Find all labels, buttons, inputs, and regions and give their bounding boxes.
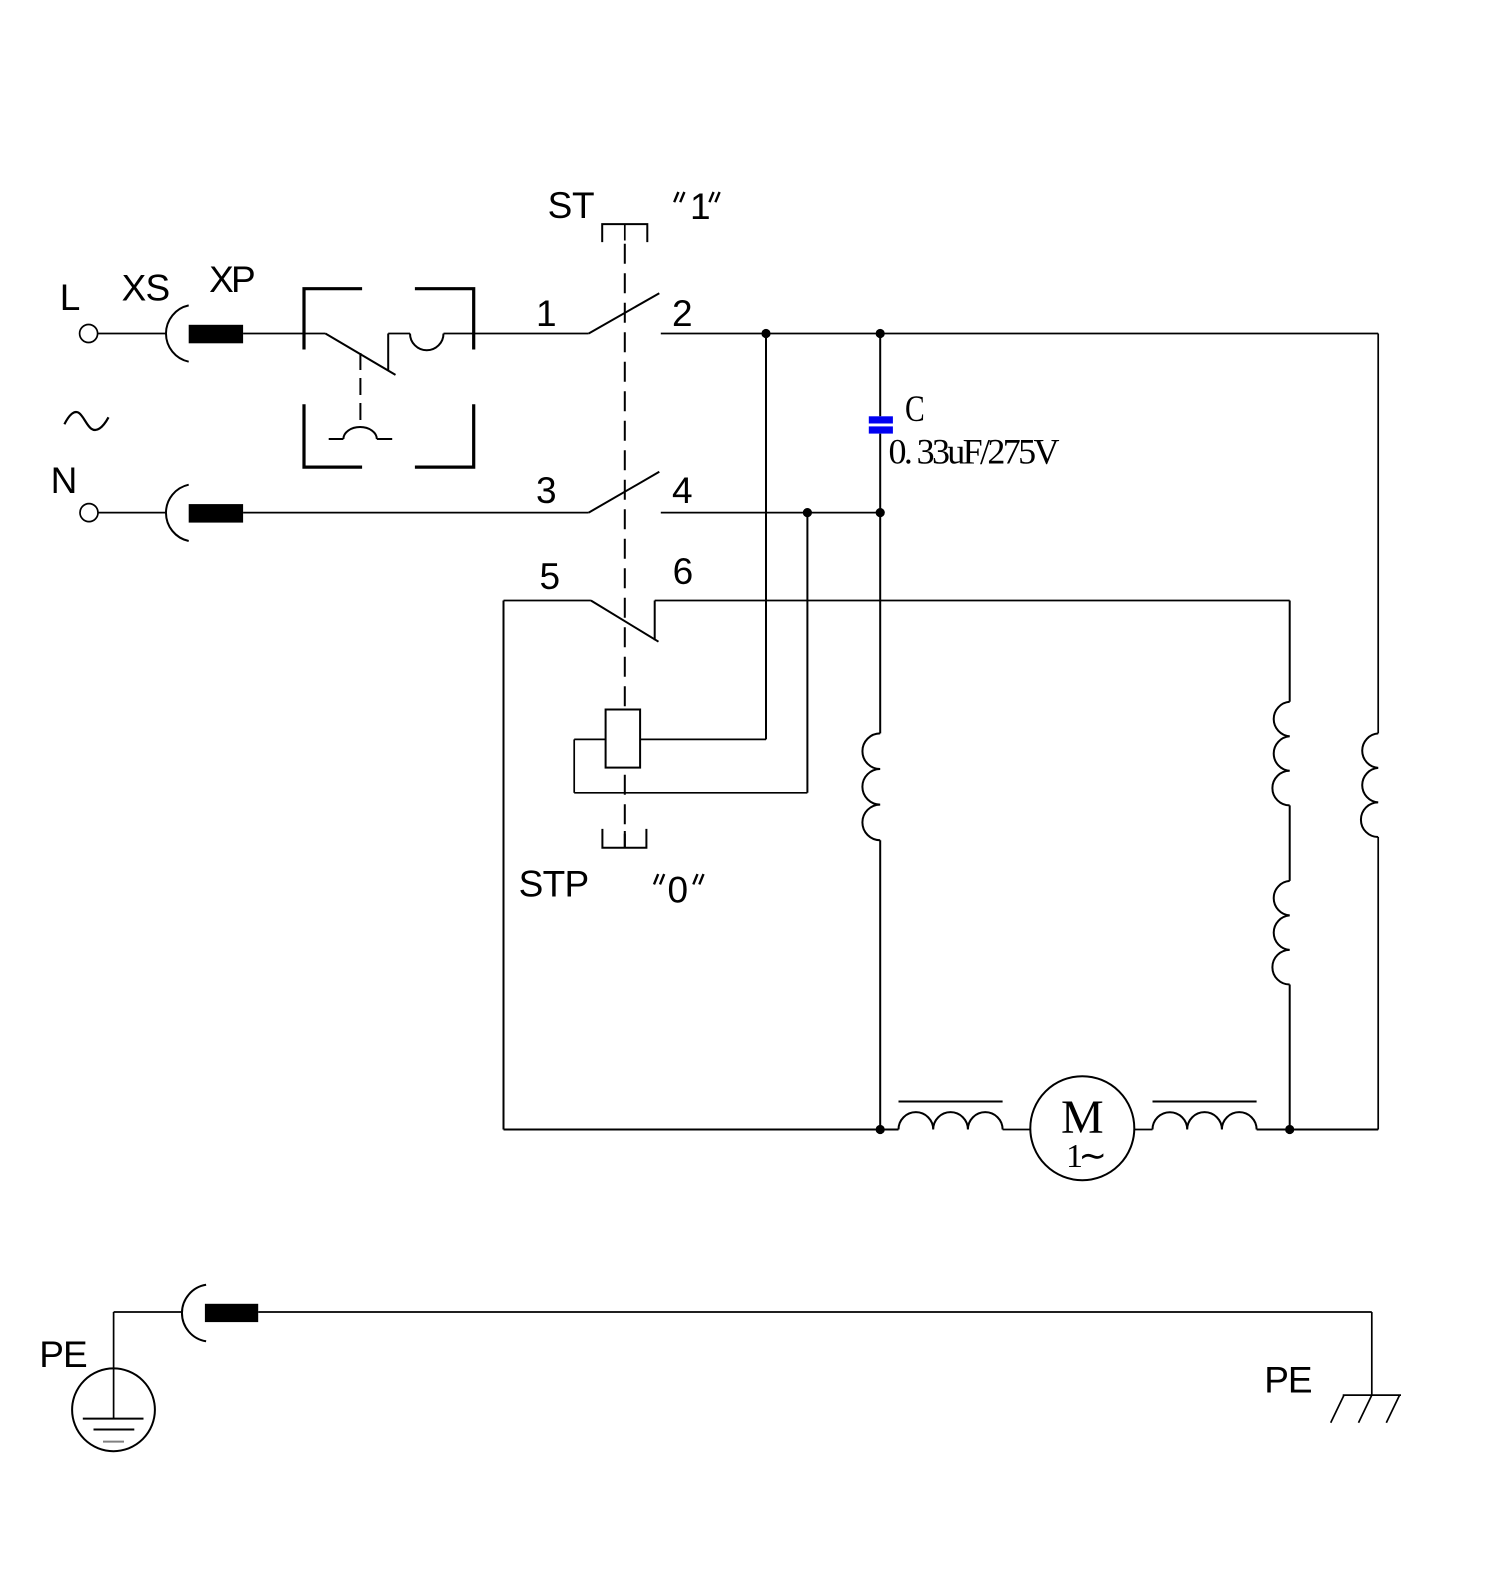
svg-text:5: 5	[540, 556, 561, 597]
svg-text:L: L	[60, 277, 81, 318]
svg-text:6: 6	[673, 551, 694, 592]
svg-text:4: 4	[672, 470, 693, 511]
svg-text:1: 1	[690, 186, 711, 227]
svg-text:XS: XS	[122, 268, 171, 309]
svg-text:N: N	[51, 460, 78, 501]
svg-text:XP: XP	[209, 259, 256, 300]
svg-text:PE: PE	[39, 1334, 87, 1375]
svg-text:1: 1	[536, 293, 557, 334]
svg-text:M: M	[1061, 1091, 1104, 1144]
svg-text:ST: ST	[548, 185, 595, 226]
svg-text:2: 2	[672, 293, 693, 334]
svg-text:0. 33uF/275V: 0. 33uF/275V	[889, 432, 1060, 472]
svg-text:PE: PE	[1264, 1360, 1312, 1401]
svg-text:1∼: 1∼	[1066, 1138, 1107, 1175]
svg-text:0: 0	[668, 869, 689, 910]
svg-text:3: 3	[536, 470, 557, 511]
svg-text:C: C	[905, 389, 925, 430]
svg-text:STP: STP	[519, 863, 590, 904]
